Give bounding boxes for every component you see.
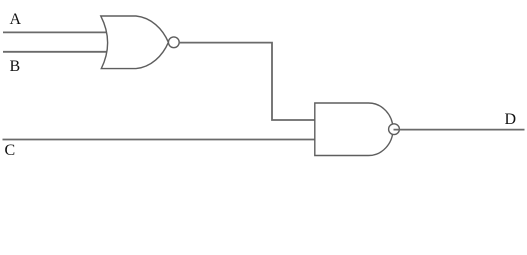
wire input A — [3, 31, 107, 33]
NOR output bubble — [168, 37, 179, 48]
NAND gate U2 body — [315, 103, 393, 156]
svg-text:D: D — [505, 111, 517, 128]
wire input B — [3, 51, 107, 53]
wire NOR output to NAND top input — [179, 43, 314, 120]
NAND output bubble — [389, 124, 400, 135]
wire input C — [3, 139, 315, 141]
wire output D — [394, 129, 525, 131]
svg-text:C: C — [5, 142, 16, 159]
svg-text:B: B — [10, 58, 21, 75]
NOR gate U1 body — [101, 16, 169, 69]
svg-text:A: A — [10, 11, 22, 28]
